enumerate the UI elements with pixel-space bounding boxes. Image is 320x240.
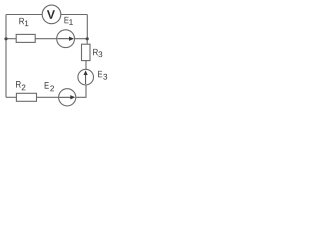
voltmeter V	[42, 5, 61, 24]
label E2	[45, 82, 49, 88]
wire top left (node A to voltmeter)	[6, 14, 42, 16]
label R2	[16, 81, 21, 87]
wire E3 to bottom corner	[76, 85, 86, 98]
source E2	[59, 89, 76, 106]
node B junction dot	[86, 37, 89, 40]
resistor R1	[16, 34, 35, 42]
wire right vertical (corner to node B)	[86, 15, 88, 39]
wire top right (voltmeter to right corner)	[61, 14, 88, 16]
wire R3 to E3	[85, 61, 87, 70]
wire node B to R3	[86, 39, 88, 44]
E1 arrow (current direction right)	[58, 37, 75, 41]
wire E1 to node B	[75, 38, 88, 40]
label R3	[93, 49, 98, 55]
source E3	[78, 69, 94, 85]
E2 arrow (current direction right)	[59, 95, 75, 99]
resistor R2	[16, 93, 36, 101]
label R1	[19, 18, 24, 24]
node A junction dot	[4, 37, 7, 40]
E3 arrow (current direction up)	[84, 70, 88, 84]
wire R1 to E1	[35, 38, 57, 40]
label V (voltmeter)	[47, 10, 55, 18]
resistor R3	[82, 44, 91, 60]
wire R2 to node A	[6, 96, 16, 98]
wire node A to R1	[6, 38, 16, 40]
label E3	[98, 71, 102, 77]
label E1	[65, 17, 69, 23]
source E1	[57, 30, 75, 48]
wire E2 to R2	[37, 96, 59, 98]
wire left vertical	[5, 15, 7, 98]
